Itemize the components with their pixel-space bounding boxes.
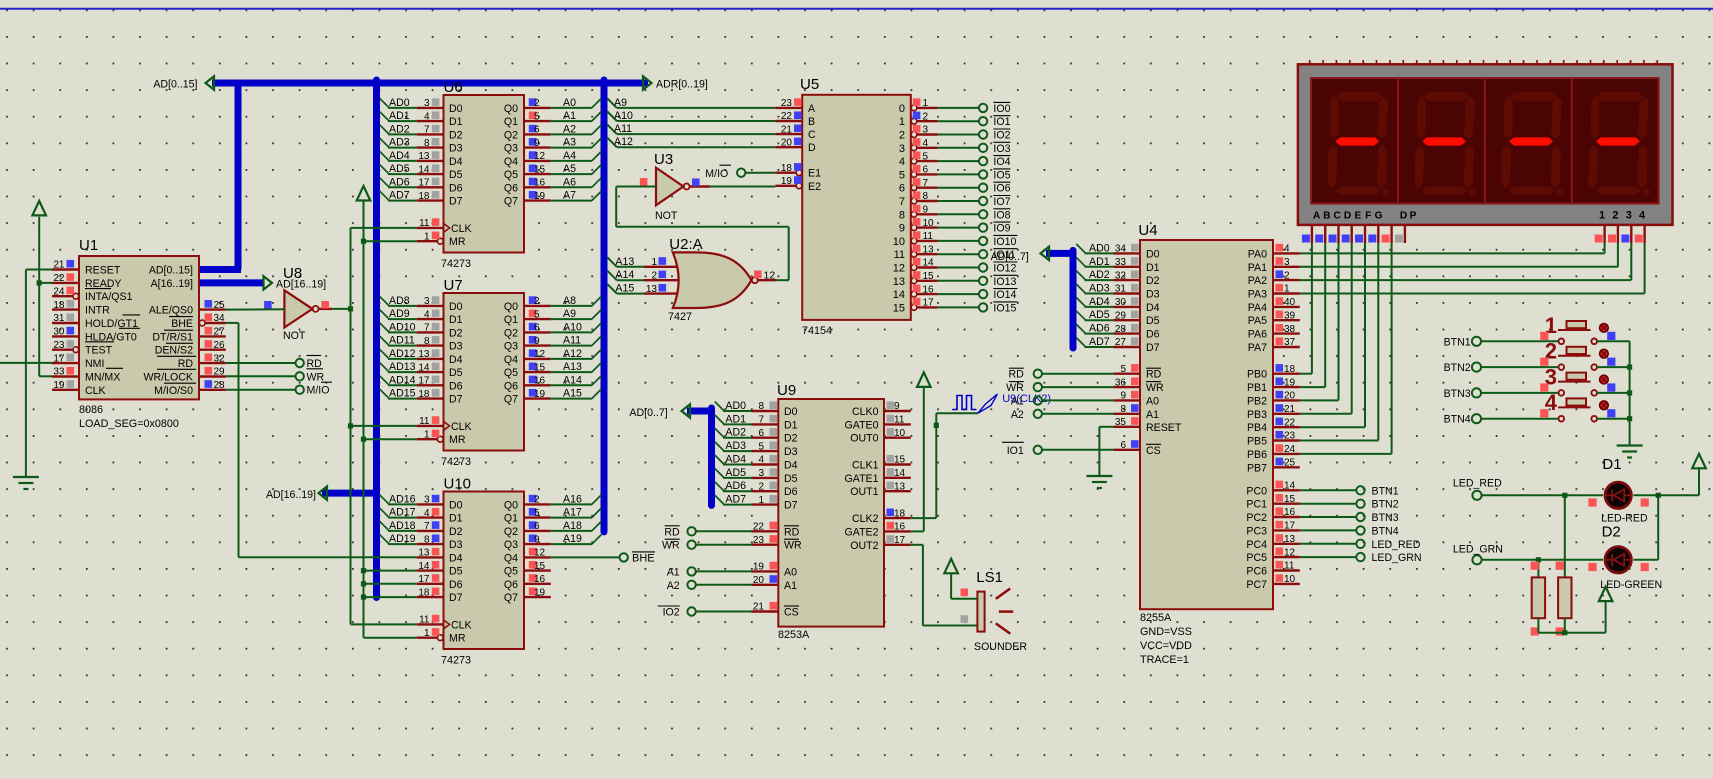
svg-text:PC2: PC2 [1246, 512, 1267, 524]
U4 pin 11 (PC6) [1246, 561, 1299, 578]
svg-text:A1: A1 [784, 580, 797, 592]
svg-text:32: 32 [1115, 270, 1127, 281]
svg-text:9: 9 [1120, 391, 1126, 402]
U9 pin 6 (D2) [725, 427, 797, 445]
svg-text:D3: D3 [449, 539, 463, 551]
wire bus tap AD input row y=187 [380, 178, 417, 188]
svg-text:WR: WR [1006, 382, 1024, 394]
svg-text:15: 15 [923, 271, 935, 282]
wire U5 output 8 to terminal IO8 [938, 213, 979, 215]
push-button 3 [1540, 364, 1615, 395]
svg-text:D0: D0 [1146, 248, 1160, 260]
wire bus tap AD input row y=372 [380, 363, 417, 373]
svg-text:19: 19 [1284, 377, 1296, 388]
svg-text:19: 19 [534, 587, 546, 598]
svg-text:Q0: Q0 [504, 103, 518, 115]
U2:A input A14 pin 2 [607, 269, 678, 281]
wire U1 ALE to U8 input [226, 308, 285, 310]
svg-text:17: 17 [418, 376, 430, 387]
U5 pin 14 (output 12) [893, 258, 938, 275]
terminal IO13 [979, 275, 1018, 288]
svg-text:D5: D5 [1146, 315, 1160, 327]
svg-text:A14: A14 [615, 269, 634, 281]
svg-text:16: 16 [534, 178, 546, 189]
U4 pin 39 (PA5) [1248, 310, 1300, 327]
wire display digit 2 to U4 PA1 [1300, 243, 1618, 267]
terminal BTN3 [1444, 388, 1481, 400]
svg-text:34: 34 [1115, 244, 1127, 255]
svg-text:A: A [1313, 210, 1321, 221]
wire Q4 to ADR bus row y=161 [551, 151, 602, 161]
svg-text:1: 1 [424, 231, 430, 242]
svg-text:IO7: IO7 [993, 196, 1010, 208]
bus arrow AD[16..19] left [319, 486, 328, 499]
svg-text:A[16..19]: A[16..19] [151, 278, 193, 290]
svg-text:M/IO/S0: M/IO/S0 [154, 385, 193, 397]
U1 pin 26 (DEN/S2) [155, 340, 226, 357]
svg-text:Q4: Q4 [504, 552, 518, 564]
svg-text:E: E [1355, 210, 1362, 221]
U9 pin 2 (D6) [725, 480, 797, 498]
svg-text:11: 11 [894, 415, 905, 426]
svg-text:14: 14 [893, 289, 905, 301]
svg-text:PB5: PB5 [1247, 436, 1267, 448]
svg-text:OUT1: OUT1 [850, 486, 878, 498]
svg-text:BTN1: BTN1 [1444, 336, 1471, 348]
U5 pin 8 (output 7) [899, 191, 938, 208]
svg-text:15: 15 [534, 164, 546, 175]
svg-text:IO11: IO11 [993, 249, 1015, 261]
svg-text:A0: A0 [1146, 395, 1159, 407]
wire Q6 to ADR bus row y=187 [551, 178, 602, 188]
terminal BTN4 [1444, 414, 1481, 426]
wire junction column to resistor R2 [1564, 495, 1566, 577]
wire Q1 to ADR bus row y=319 [551, 310, 602, 320]
wire Q0 to ADR bus row y=504 [551, 495, 602, 505]
wire display segment E to U4 PB4 [1300, 243, 1365, 427]
U1 right pin-name overlines [157, 317, 196, 384]
wire U10 Q4 to BHE terminal [551, 556, 620, 558]
wire U5 output 0 to terminal IO0 [938, 107, 979, 109]
D1 pin squares [1588, 498, 1648, 506]
svg-text:15: 15 [1284, 494, 1296, 505]
terminal IO5 [979, 169, 1011, 182]
svg-text:30: 30 [1115, 297, 1127, 308]
svg-text:21: 21 [1284, 404, 1296, 415]
terminal BTN2 [1356, 499, 1398, 511]
wire U5 output 14 to terminal IO14 [938, 293, 979, 295]
terminal IO2 [979, 129, 1011, 142]
svg-text:DEN/S2: DEN/S2 [155, 345, 193, 357]
svg-text:A15: A15 [615, 283, 634, 295]
svg-text:7: 7 [424, 125, 430, 136]
U9 pin 1 (D7) [725, 494, 797, 512]
svg-text:D4: D4 [449, 552, 463, 564]
U10 pin 4 (D1) [389, 507, 463, 525]
U6 pin 14 (D5) [389, 163, 463, 181]
U7 pin 9 (Q3) [504, 335, 581, 353]
ground at U4 RESET [1086, 476, 1112, 488]
svg-text:36: 36 [1115, 377, 1127, 388]
wire bus tap AD input row y=504 [380, 495, 417, 505]
svg-text:LED_GRN: LED_GRN [1372, 552, 1422, 564]
wire bus tap AD2 to U4 [1076, 271, 1113, 281]
svg-text:D1: D1 [449, 116, 463, 128]
U10 pin 12 (Q4) [504, 548, 551, 565]
latch U6 74273 body [441, 79, 524, 270]
svg-text:D3: D3 [784, 446, 798, 458]
svg-text:D7: D7 [784, 500, 798, 512]
terminal A2 at U9 [667, 580, 752, 592]
svg-text:4: 4 [923, 138, 929, 149]
svg-text:BHE: BHE [171, 318, 193, 330]
U10 pin 17 (D6) [417, 574, 463, 591]
bus vertical from top bus down to U1 AD[0..15] pin [235, 83, 242, 270]
wire Q5 to ADR bus row y=174 [551, 165, 602, 175]
svg-text:U8: U8 [283, 265, 302, 282]
svg-text:6: 6 [923, 165, 929, 176]
svg-text:10: 10 [893, 236, 905, 248]
U1 pin 30 (HLDA/GT0) [52, 327, 137, 344]
svg-text:D6: D6 [784, 486, 798, 498]
svg-text:8: 8 [424, 138, 430, 149]
svg-text:18: 18 [418, 587, 430, 598]
svg-text:17: 17 [923, 298, 935, 309]
wire A12 from ADR bus to U5 [607, 136, 775, 148]
svg-text:4: 4 [424, 309, 430, 320]
svg-text:14: 14 [418, 362, 430, 373]
svg-text:19: 19 [781, 176, 793, 187]
terminal M/IO at U1 with wire [226, 382, 332, 397]
U10 pin 18 (D7) [417, 587, 463, 604]
svg-text:23: 23 [753, 535, 765, 546]
svg-text:9: 9 [534, 336, 540, 347]
svg-text:20: 20 [1284, 391, 1296, 402]
svg-text:D4: D4 [449, 354, 463, 366]
wire Q7 to ADR bus row y=399 [551, 389, 602, 399]
svg-text:RD: RD [1008, 369, 1024, 381]
svg-text:6: 6 [758, 428, 764, 439]
svg-text:Q7: Q7 [504, 592, 518, 604]
wire sounder top pin to VCC [951, 574, 977, 599]
svg-text:24: 24 [53, 286, 65, 297]
svg-text:12: 12 [764, 270, 776, 282]
svg-text:2: 2 [923, 111, 929, 122]
U6 pin 16 (Q6) [504, 176, 576, 194]
U6 pin 9 (Q3) [504, 137, 576, 155]
svg-text:Q5: Q5 [504, 169, 518, 181]
wire Q0 to ADR bus row y=108 [551, 98, 602, 108]
svg-text:33: 33 [53, 367, 65, 378]
U4 pin 16 (PC2) [1246, 507, 1299, 524]
svg-text:15: 15 [894, 455, 906, 466]
svg-text:MR: MR [449, 236, 466, 248]
svg-text:D2: D2 [449, 526, 463, 538]
U7 pin 4 (D1) [389, 308, 463, 326]
svg-text:OUT0: OUT0 [850, 433, 878, 445]
svg-text:6: 6 [1120, 440, 1126, 451]
U9 pin 18 (CLK2) [852, 508, 911, 525]
svg-text:PB4: PB4 [1247, 422, 1267, 434]
svg-text:1: 1 [424, 628, 430, 639]
U1 pin 32 (RD) [178, 353, 226, 370]
svg-text:4: 4 [424, 508, 430, 519]
terminal RD at U9 [664, 526, 751, 539]
svg-text:IO8: IO8 [993, 209, 1010, 221]
svg-text:RD: RD [1146, 369, 1162, 381]
svg-text:CLK: CLK [451, 421, 472, 433]
svg-text:CLK2: CLK2 [852, 513, 879, 525]
wire bus tap AD input row y=319 [380, 310, 417, 320]
svg-text:Q6: Q6 [504, 579, 518, 591]
svg-text:U9: U9 [777, 382, 796, 399]
U7 pin 11 (CLK) [417, 416, 472, 433]
U6 pin 6 (Q2) [504, 123, 576, 141]
svg-text:D: D [808, 142, 816, 154]
U5 pin 17 (output 15) [893, 298, 938, 315]
svg-text:MR: MR [449, 434, 466, 446]
U7 pin 8 (D3) [389, 335, 463, 353]
terminal BTN1 [1444, 336, 1481, 348]
svg-text:15: 15 [534, 362, 546, 373]
wire U3 output to U5 E2 [710, 186, 776, 188]
svg-text:PC1: PC1 [1246, 499, 1267, 511]
svg-text:11: 11 [419, 416, 430, 427]
svg-text:23: 23 [781, 98, 793, 109]
svg-text:AD[0..15]: AD[0..15] [149, 265, 193, 277]
terminal RD at U1 with wire [226, 356, 322, 371]
U6 pin 18 (D7) [389, 190, 463, 208]
svg-text:9: 9 [923, 205, 929, 216]
svg-text:D4: D4 [1146, 302, 1160, 314]
terminal IO4 [979, 156, 1011, 169]
terminal A1 at U9 [667, 566, 752, 578]
svg-text:38: 38 [1284, 324, 1296, 335]
U9 pin 14 (GATE1) [845, 468, 911, 485]
svg-text:11: 11 [419, 218, 430, 229]
svg-text:20: 20 [781, 137, 793, 148]
bus AD[0..7] at U4 [1046, 250, 1073, 257]
svg-text:13: 13 [646, 284, 658, 295]
U7 pin 18 (D7) [389, 388, 463, 406]
svg-text:Q6: Q6 [504, 380, 518, 392]
display digit 2 segments [1415, 92, 1477, 195]
svg-text:40: 40 [1284, 297, 1296, 308]
power symbol VCC at U9 GATE2 [917, 372, 931, 387]
wire U8 output to CLK rail [332, 308, 351, 310]
svg-text:MN/MX: MN/MX [85, 372, 120, 384]
svg-text:35: 35 [1115, 417, 1127, 428]
svg-text:NOT: NOT [655, 210, 678, 222]
svg-text:NOT: NOT [283, 330, 306, 342]
wire display segment G to U4 PB6 [1300, 243, 1392, 454]
U2:A input A13 pin 1 [607, 256, 678, 268]
wire display digit 1 to U4 PA0 [1300, 243, 1605, 253]
U1 pin 29 (WR/LOCK) [144, 367, 226, 384]
wire Q1 to ADR bus row y=518 [551, 508, 602, 517]
U10 pin 11 (CLK) [417, 615, 472, 632]
bus arrow AD[0..15] (left end) [206, 76, 215, 89]
resistor R2 [1556, 562, 1572, 636]
svg-text:PB2: PB2 [1247, 395, 1267, 407]
wire bus tap AD input row y=134 [380, 125, 417, 134]
U7 pin 3 (D0) [389, 295, 463, 313]
wire LED_GRN to D2 [1482, 557, 1603, 562]
svg-text:16: 16 [894, 522, 906, 533]
svg-text:PA0: PA0 [1248, 248, 1267, 260]
wire U9 CLK2 to clock generator [911, 413, 978, 518]
svg-text:D5: D5 [449, 367, 463, 379]
svg-text:PA7: PA7 [1248, 342, 1267, 354]
U1 pin 23 (TEST) [52, 340, 113, 357]
wire U5 output 7 to terminal IO7 [938, 200, 979, 202]
U4 pin 1 (PA3) [1248, 284, 1300, 301]
wire U1 BHE down to U10 D4 [226, 323, 417, 557]
svg-text:34: 34 [214, 313, 226, 324]
svg-text:1: 1 [424, 429, 430, 440]
svg-text:5: 5 [534, 508, 540, 519]
power symbol VCC near U1 [32, 201, 46, 216]
svg-text:GATE0: GATE0 [845, 419, 879, 431]
display digit 1 segments [1328, 92, 1390, 195]
wire U5 output 12 to terminal IO12 [938, 267, 979, 269]
wire bus tap AD input row y=359 [380, 349, 417, 359]
svg-text:AD[16..19]: AD[16..19] [266, 489, 316, 501]
U5 pin 10 (output 9) [899, 218, 938, 235]
svg-text:LED_GRN: LED_GRN [1453, 543, 1503, 555]
svg-text:2: 2 [899, 130, 905, 142]
svg-text:17: 17 [1284, 521, 1296, 532]
U5 pin 21 (C) [775, 124, 816, 141]
svg-text:18: 18 [53, 300, 65, 311]
wire BTN2 terminal to button [1481, 366, 1559, 368]
terminal BTN2 [1444, 362, 1481, 374]
U9 pin 8 (D0) [725, 400, 797, 418]
wire bus tap AD0 to U9 [715, 402, 752, 412]
U4 pin 2 (PA2) [1248, 270, 1300, 287]
svg-text:12: 12 [893, 263, 905, 275]
wire button 3 to common [1597, 392, 1630, 394]
svg-text:Q5: Q5 [504, 566, 518, 578]
U10 pin 13 (D4) [417, 548, 463, 565]
svg-text:A1: A1 [1146, 409, 1159, 421]
svg-text:A13: A13 [615, 256, 634, 268]
svg-text:BTN4: BTN4 [1444, 414, 1471, 426]
svg-text:10: 10 [894, 428, 906, 439]
U7 pin 2 (Q0) [504, 295, 576, 313]
display segment letter labels ABCDEFG DP [1313, 210, 1417, 221]
svg-text:CLK: CLK [85, 385, 106, 397]
terminal IO2 at U9 [658, 606, 752, 619]
U5 pin 1 (output 0) [899, 98, 938, 115]
U9 pin 13 (OUT1) [850, 481, 911, 498]
svg-text:E1: E1 [808, 168, 821, 180]
inverter U8 (NOT) on ALE [264, 265, 332, 342]
wire U5 output 11 to terminal IO11 [938, 253, 979, 255]
svg-text:37: 37 [1284, 337, 1296, 348]
wire button 2 to common [1597, 366, 1630, 368]
U10 pin 14 (D5) [417, 561, 463, 578]
U6 pin 2 (Q0) [504, 97, 576, 115]
wire bus tap AD7 to U9 [715, 495, 752, 505]
svg-text:IO1: IO1 [1007, 445, 1024, 457]
svg-text:U5: U5 [800, 76, 819, 93]
svg-text:M/IO: M/IO [307, 385, 330, 397]
svg-text:7427: 7427 [668, 311, 692, 323]
svg-text:PC7: PC7 [1246, 579, 1267, 591]
svg-text:IO2: IO2 [663, 607, 680, 619]
U1 pin 28 (M/IO/S0) [154, 380, 226, 397]
U1 pin 19 (CLK) [52, 380, 106, 397]
U5 pin 18 (E1) [775, 163, 821, 180]
svg-text:Q3: Q3 [504, 143, 518, 155]
svg-text:14: 14 [418, 164, 430, 175]
svg-text:7: 7 [424, 323, 430, 334]
U5 pin 2 (output 1) [899, 111, 938, 128]
svg-text:11: 11 [1284, 561, 1295, 572]
wire Q1 to ADR bus row y=121 [551, 112, 602, 122]
svg-text:D3: D3 [449, 341, 463, 353]
svg-text:Q7: Q7 [504, 394, 518, 406]
svg-text:B: B [1323, 210, 1330, 221]
U1 pin 21 (RESET) [52, 260, 121, 277]
svg-text:11: 11 [894, 249, 905, 261]
U7 pin 15 (Q5) [504, 361, 582, 379]
svg-text:6: 6 [534, 125, 540, 136]
U4 pin 10 (PC7) [1246, 574, 1299, 591]
display 4-digit 7-segment module [1298, 64, 1673, 225]
wire display segment B to U4 PB1 [1300, 243, 1325, 387]
svg-text:IO1: IO1 [993, 116, 1010, 128]
svg-text:6: 6 [534, 521, 540, 532]
wire buttons common rail to ground [1627, 341, 1632, 444]
svg-text:Q6: Q6 [504, 182, 518, 194]
U1 pin 34 (BHE) [171, 313, 226, 330]
U5 pin 7 (output 6) [899, 178, 938, 195]
wire resistor bottoms to VCC arrow [1538, 601, 1605, 635]
U4 pin 28 (D6) [1089, 323, 1160, 341]
svg-text:CS: CS [784, 607, 799, 619]
U9 pin 5 (D3) [725, 440, 797, 458]
wire bus tap AD input row y=544 [380, 535, 417, 545]
U1 pin 33 (MN/MX) [52, 367, 120, 384]
svg-text:Q2: Q2 [504, 327, 518, 339]
svg-text:13: 13 [893, 276, 905, 288]
terminal IO7 [979, 196, 1011, 209]
wire LED_GRN column to resistor R1 [1537, 560, 1539, 578]
wire D1/D2 cathode link [1657, 495, 1659, 560]
wire U1 RESET to ground [26, 270, 52, 478]
svg-text:PA1: PA1 [1248, 262, 1267, 274]
wire Q4 to ADR bus row y=359 [551, 349, 602, 359]
svg-text:39: 39 [1284, 310, 1296, 321]
svg-text:WR/LOCK: WR/LOCK [144, 372, 193, 384]
svg-text:10: 10 [923, 218, 935, 229]
svg-text:CS: CS [1146, 445, 1161, 457]
wire Q5 to ADR bus row y=372 [551, 363, 602, 373]
U4 pin 22 (PB4) [1247, 417, 1300, 434]
wire U5 output 13 to terminal IO13 [938, 280, 979, 282]
U4 pin 33 (D1) [1089, 256, 1160, 274]
wire bus tap AD input row y=121 [380, 112, 417, 122]
svg-text:PA3: PA3 [1248, 289, 1267, 301]
U5 pin 3 (output 2) [899, 125, 938, 142]
U10 pin 16 (Q6) [504, 574, 551, 591]
U6 pin 3 (D0) [389, 97, 463, 115]
wire U1 NMI to left edge [0, 362, 52, 364]
svg-text:D1: D1 [1602, 456, 1621, 473]
U4 pin 40 (PA4) [1248, 297, 1300, 314]
